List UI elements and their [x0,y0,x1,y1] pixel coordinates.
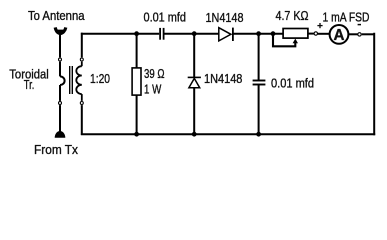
wire meter to minus terminal [348,33,357,35]
potentiometer R2 wiper arrowhead [293,39,298,44]
meter M1 [330,25,349,44]
wire plus to meter [318,33,330,35]
transformer T1 primary winding [60,62,65,101]
junction dot bottom D2 [192,132,197,137]
transformer T1 secondary winding [76,62,82,101]
svg-text:0.01 mfd: 0.01 mfd [144,10,187,25]
svg-text:0.01 mfd: 0.01 mfd [271,76,314,91]
svg-text:1 W: 1 W [144,81,162,96]
junction dot top R1 [134,31,139,36]
terminal circle primary bottom [59,102,62,105]
svg-text:1:20: 1:20 [90,71,110,86]
terminal circle minus [358,33,361,36]
terminal circle secondary top [80,58,83,61]
wire R1 bottom lead [136,95,138,135]
label From Tx [34,142,78,157]
svg-text:1N4148: 1N4148 [206,10,244,25]
junction dot top D2 [192,31,197,36]
svg-text:1N4148: 1N4148 [204,71,242,86]
potentiometer R2 wiper [273,35,295,47]
diode D1 [219,28,233,41]
label 39 Ohm R1 [144,66,165,81]
junction dot wiper tap [271,31,276,36]
junction dot bottom C2 [256,132,261,137]
svg-text:1 mA FSD: 1 mA FSD [323,9,370,24]
plus sign [317,23,322,28]
potentiometer R2 body [283,29,308,39]
wire C2 bottom lead [258,85,260,136]
junction dot bottom R1 [134,132,139,137]
label Toroidal [9,66,49,81]
junction dot top C2 [256,31,261,36]
wire D2 top lead [193,33,195,78]
diode D2 cathode bar [188,76,201,78]
label 0.01 mfd C2 [271,76,314,91]
label 1N4148 D2 [204,71,242,86]
capacitor C2 plates [253,81,266,85]
svg-text:39 Ω: 39 Ω [144,66,165,81]
label 4.7 KOhm R2 [276,8,309,23]
wire D2 bottom lead [193,88,195,135]
label Tr. [24,77,35,92]
label 1:20 [90,71,110,86]
wire secondary top to rail [81,33,83,58]
Tx terminal J2 [55,131,66,138]
wire minus to right corner [362,33,375,35]
terminal circle secondary bottom [80,102,83,105]
minus sign [358,24,361,26]
label 1 mA FSD [323,9,370,24]
transformer T1 core [70,66,73,94]
svg-text:Tr.: Tr. [24,77,35,92]
wire R1 top lead [136,33,138,69]
wire top rail mid [165,33,220,35]
svg-text:A: A [334,27,345,44]
label 0.01 mfd C1 [144,10,187,25]
wire bottom rail [81,133,375,135]
label 1N4148 D1 [206,10,244,25]
svg-text:To Antenna: To Antenna [28,8,85,23]
wire right vertical [373,33,375,135]
svg-text:4.7 KΩ: 4.7 KΩ [276,8,309,23]
wire secondary bottom to rail [81,105,83,135]
resistor R1 body [132,68,141,95]
wire antenna stem [59,33,61,58]
antenna terminal J1 [55,27,66,35]
wire top rail right of D1 [233,33,284,35]
terminal circle plus [314,32,317,35]
wire top rail left [81,33,159,35]
wire Tx stem [59,105,61,131]
diode D2 triangle [189,78,200,87]
label To Antenna [28,8,85,23]
label 1 W R1 [144,81,162,96]
wire pot to plus terminal [308,33,314,35]
wire C2 top lead [258,33,260,80]
svg-text:From Tx: From Tx [34,142,78,157]
capacitor C1 [160,28,164,40]
terminal circle primary top [59,58,62,61]
